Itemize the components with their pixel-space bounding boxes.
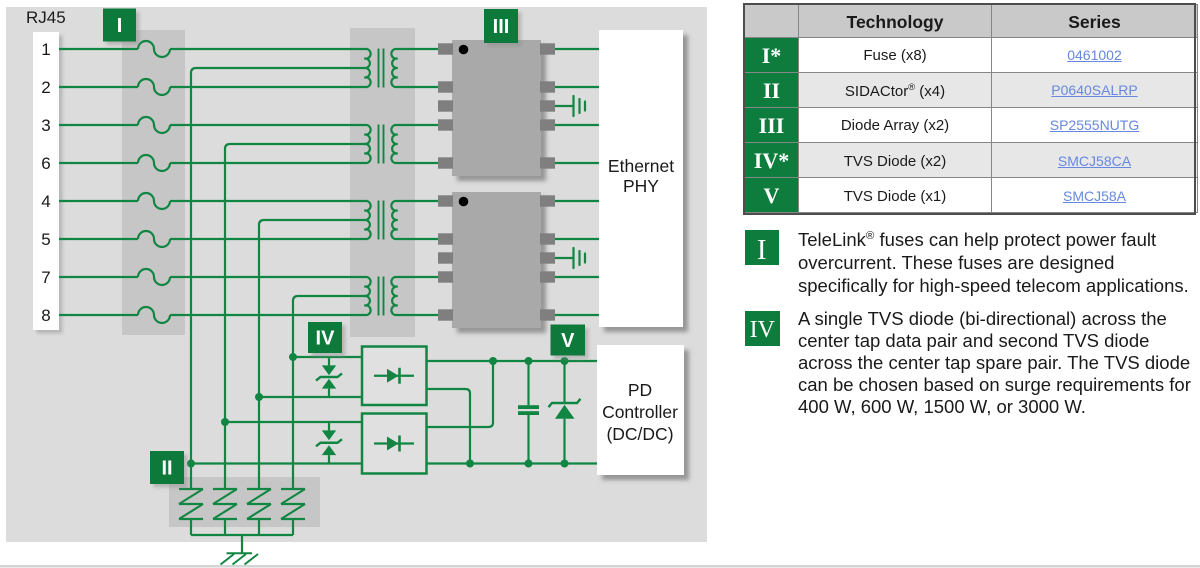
wire BR2 negative output to -rail — [426, 462, 597, 464]
wire center-tap vertical net CT3 — [259, 220, 264, 490]
junction node (493,361) — [489, 357, 497, 365]
TVS diode D2 (bi-directional) — [316, 422, 342, 464]
SIDACtor S4 — [281, 489, 305, 535]
wire center-tap vertical net CT4 — [293, 296, 298, 490]
wire T2 secondary top lead — [400, 124, 439, 126]
wire U1 pin to Ethernet PHY (y=87) — [555, 86, 599, 88]
wire RJ45 pin 3 to fuse F3 — [59, 124, 138, 126]
wire U2 pin to Ethernet PHY (y=239) — [555, 238, 599, 240]
wire RJ45 pin 4 to fuse F5 — [59, 200, 138, 202]
wire T1 secondary top lead — [400, 48, 439, 50]
RJ45 connector strip — [33, 32, 59, 330]
wire fuse F7 to transformer — [170, 276, 363, 278]
wire BR1 negative output down to -rail — [426, 389, 470, 464]
wire tap to bridge BR2 top input — [225, 421, 362, 423]
SIDACtor S3 — [247, 489, 271, 535]
wire T4 secondary bottom lead — [400, 314, 439, 316]
wire T3 secondary bottom lead — [400, 238, 439, 240]
wire U1 pin to Ethernet PHY (y=49) — [555, 48, 599, 50]
svg-text:V: V — [561, 330, 575, 352]
svg-text:1: 1 — [41, 40, 50, 59]
wire T3 secondary top lead — [400, 200, 439, 202]
label box IV (TVS diodes) — [308, 322, 342, 353]
chassis ground symbol at U1 — [574, 96, 586, 116]
wire RJ45 pin 5 to fuse F6 — [59, 238, 138, 240]
wire fuse F8 to transformer — [170, 314, 363, 316]
transformer T3 — [363, 201, 400, 240]
PD Controller block — [597, 345, 684, 475]
wire U1 pin to Ethernet PHY (y=125) — [555, 124, 599, 126]
wire T2 secondary bottom lead — [400, 162, 439, 164]
Ethernet PHY block — [599, 30, 683, 327]
wire U1 pin to Ethernet PHY (y=163) — [555, 162, 599, 164]
svg-text:(DC/DC): (DC/DC) — [606, 424, 673, 444]
svg-text:RJ45: RJ45 — [26, 8, 66, 27]
SIDACtor S1 — [179, 489, 203, 535]
capacitor C1 — [518, 361, 539, 464]
wire RJ45 pin 6 to fuse F4 — [59, 162, 138, 164]
fuse F1 — [138, 41, 170, 57]
wire BR2 positive output up to +rail — [426, 361, 493, 427]
junction node (293,357) — [289, 353, 297, 361]
fuse column shaded band — [122, 30, 185, 335]
svg-text:Controller: Controller — [602, 402, 678, 422]
diode array U1 — [438, 40, 555, 176]
svg-text:IV: IV — [316, 328, 336, 350]
svg-text:5: 5 — [41, 230, 50, 249]
svg-text:6: 6 — [41, 154, 50, 173]
junction node (191,463.5) — [187, 460, 195, 468]
fuse F6 — [138, 231, 170, 247]
bridge rectifier BR1 — [362, 347, 427, 406]
svg-text:PD: PD — [628, 380, 652, 400]
svg-text:I: I — [117, 15, 123, 37]
schematic background panel — [6, 7, 707, 542]
fuse F4 — [138, 155, 170, 171]
junction node (564.5,361) — [561, 357, 569, 365]
wire T1 secondary bottom lead — [400, 86, 439, 88]
diode array U2 — [438, 192, 555, 328]
wire fuse F3 to transformer — [170, 124, 363, 126]
wire RJ45 pin 7 to fuse F7 — [59, 276, 138, 278]
junction node (528.5,463.5) — [525, 460, 533, 468]
transformer T2 — [363, 125, 400, 164]
SIDACtor S2 — [213, 489, 237, 535]
wire transformer T4 center tap — [298, 295, 365, 297]
wire center-tap vertical net CT2 — [225, 144, 230, 490]
junction node (470,463.5) — [466, 460, 474, 468]
fuse F3 — [138, 117, 170, 133]
TVS diode D3 — [549, 361, 581, 464]
junction node (225,422) — [221, 418, 229, 426]
transformer T4 — [363, 277, 400, 316]
chassis ground symbol at U2 — [574, 248, 586, 268]
label box V (TVS diode) — [551, 325, 586, 356]
svg-text:4: 4 — [41, 192, 50, 211]
wire BR1 positive output to +rail — [426, 360, 597, 362]
wire transformer T3 center tap — [264, 219, 365, 221]
wire RJ45 pin 1 to fuse F1 — [59, 48, 138, 50]
wire RJ45 pin 8 to fuse F8 — [59, 314, 138, 316]
wire fuse F6 to transformer — [170, 238, 363, 240]
svg-text:8: 8 — [41, 306, 50, 325]
wire U2 pin to Ethernet PHY (y=315) — [555, 314, 599, 316]
SIDACtor shaded band — [169, 477, 320, 527]
page bottom divider line — [0, 565, 1200, 568]
wire U2 center pin to chassis ground — [555, 257, 574, 259]
wire U2 pin to Ethernet PHY (y=201) — [555, 200, 599, 202]
wire fuse F5 to transformer — [170, 200, 363, 202]
earth ground symbol — [221, 553, 259, 564]
wire fuse F1 to transformer — [170, 48, 363, 50]
svg-text:PHY: PHY — [623, 176, 659, 196]
wire transformer T1 center tap — [196, 67, 365, 69]
wire T4 secondary top lead — [400, 276, 439, 278]
wire data-pair tap to bridge BR1 bottom input — [259, 396, 362, 398]
wire spare-pair tap to bridge BR1 top input — [293, 356, 362, 358]
wire RJ45 pin 2 to fuse F2 — [59, 86, 138, 88]
fuse F5 — [138, 193, 170, 209]
transformer T1 — [363, 49, 400, 88]
wire U1 center pin to chassis ground — [555, 105, 574, 107]
junction node (564.5,463.5) — [561, 460, 569, 468]
svg-text:2: 2 — [41, 78, 50, 97]
wire bus to earth ground — [241, 535, 243, 553]
svg-text:II: II — [161, 458, 172, 480]
wire SIDACtor common bus — [191, 534, 293, 536]
junction node (528.5,361) — [525, 357, 533, 365]
label box III (diode arrays) — [484, 9, 518, 43]
wire fuse F4 to transformer — [170, 162, 363, 164]
wire transformer T2 center tap — [230, 143, 365, 145]
svg-text:3: 3 — [41, 116, 50, 135]
wire fuse F2 to transformer — [170, 86, 363, 88]
wire center-tap vertical net CT1 — [191, 68, 196, 490]
TVS diode D1 (bi-directional) — [316, 357, 342, 397]
label box II (SIDACtors) — [150, 451, 184, 484]
transformer column shaded band — [350, 28, 415, 337]
fuse F8 — [138, 307, 170, 323]
fuse F7 — [138, 269, 170, 285]
svg-text:III: III — [493, 16, 510, 38]
svg-text:7: 7 — [41, 268, 50, 287]
bridge rectifier BR2 — [362, 414, 427, 474]
wire tap to bridge BR2 bottom input — [191, 462, 362, 464]
wire U2 pin to Ethernet PHY (y=277) — [555, 276, 599, 278]
label box I (fuses) — [103, 9, 136, 42]
junction node (259,397) — [255, 393, 263, 401]
svg-text:Ethernet: Ethernet — [608, 156, 674, 176]
fuse F2 — [138, 79, 170, 95]
